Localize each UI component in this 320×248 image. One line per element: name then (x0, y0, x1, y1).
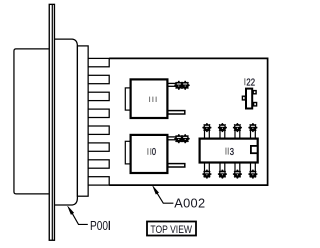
relay I11 gear terminal a (174, 81, 183, 90)
svg-text:TOP VIEW: TOP VIEW (150, 224, 192, 236)
pin 3 (88, 92, 109, 100)
IC I13 gear pin bottom-3 (233, 170, 242, 179)
relay I10 left tab (125, 141, 130, 164)
label I10 (147, 146, 156, 157)
IC I13 pin stem bottom-3 (235, 162, 240, 171)
IC I13 gear pin top-1 (202, 123, 211, 132)
IC I13 body (200, 139, 258, 163)
pin 6 (88, 143, 109, 151)
relay I10 top-right pin stem (168, 137, 176, 140)
IC I13 pin stem top-2 (220, 131, 225, 139)
IC I13 pin stem top-3 (235, 131, 240, 139)
relay I11 left tab (125, 88, 130, 110)
transistor I22 right-top tab (253, 91, 256, 94)
pin 5 (88, 126, 109, 134)
IC I13 gear pin top-3 (233, 123, 242, 132)
svg-text:0: 0 (152, 146, 156, 157)
IC I13 pin stem top-1 (205, 131, 210, 139)
label I22 (244, 76, 255, 87)
leader arrow P001 (68, 206, 74, 215)
IC I13 gear pin bottom-4 (248, 170, 257, 179)
IC I13 pin stem bottom-4 (251, 162, 256, 171)
connector pins (8) (88, 58, 109, 185)
IC I13 pin stem bottom-1 (205, 162, 210, 171)
IC I13 index notch (251, 146, 258, 153)
svg-text:A002: A002 (174, 196, 205, 211)
IC I13 pin stem bottom-2 (220, 162, 225, 171)
svg-text:P00: P00 (90, 219, 108, 233)
label I11 (149, 97, 157, 102)
IC I13 gear pin top-2 (218, 123, 227, 132)
pin 1 (88, 58, 109, 66)
pin carrier block (77, 46, 88, 196)
IC I13 gear pin top-4 (248, 123, 257, 132)
transistor I22 left tab (242, 96, 245, 100)
label P001 (90, 219, 110, 233)
transistor I22 body (246, 89, 252, 109)
transistor I22 right-bottom tab (254, 103, 257, 106)
relay I10 gear terminal b (181, 134, 190, 143)
relay I10 body (131, 135, 168, 173)
svg-text:22: 22 (246, 76, 255, 87)
IC I13 pin stem top-4 (251, 131, 256, 139)
pin 8 (88, 177, 109, 185)
pin 2 (88, 75, 109, 83)
pin 4 (88, 109, 109, 117)
TOP VIEW box (147, 222, 196, 236)
relay I11 bottom-right pin (168, 111, 185, 114)
leader arrow A002 (153, 186, 159, 195)
relay I11 body (131, 79, 168, 118)
mounting panel / flange plate (49, 4, 54, 240)
connector shell P001 (left body) (14, 49, 49, 194)
relay I11 top-right pin stem (168, 83, 176, 86)
svg-text:3: 3 (230, 146, 234, 157)
IC I13 gear pin bottom-2 (218, 170, 227, 179)
pin 7 (88, 160, 109, 168)
IC I13 gear pin bottom-1 (202, 170, 211, 179)
relay I10 gear terminal a (174, 134, 183, 143)
panel divider line (51, 4, 53, 240)
relay I11 gear terminal b (181, 81, 190, 90)
label I13 (225, 146, 234, 157)
relay I10 bottom-right pin (168, 164, 185, 167)
board A002 outline (no left edge) (109, 58, 267, 185)
connector hood (behind panel) (55, 39, 78, 205)
